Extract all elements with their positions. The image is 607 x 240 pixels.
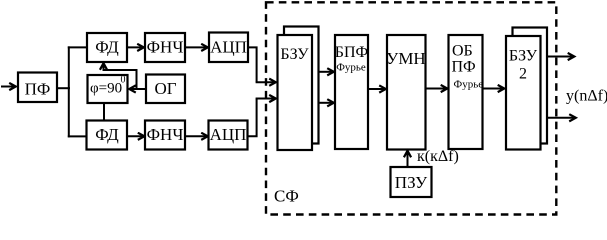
svg-text:СФ: СФ bbox=[274, 187, 299, 206]
block FD upper (ФД) bbox=[87, 33, 127, 62]
dashed box SF (СФ) bbox=[266, 2, 556, 214]
wire BPF to UMN bbox=[368, 88, 386, 90]
svg-text:Фурье: Фурье bbox=[336, 62, 366, 74]
svg-text:БЗУ: БЗУ bbox=[280, 46, 309, 63]
wire phase shifter to lower FD bbox=[103, 103, 105, 121]
wire bus to lower FD bbox=[68, 135, 86, 137]
svg-text:ПФ: ПФ bbox=[25, 80, 51, 99]
block OG (ОГ) bbox=[146, 75, 185, 104]
svg-text:Фурье: Фурье bbox=[454, 79, 484, 91]
block FNCh upper (ФНЧ) bbox=[145, 33, 185, 62]
svg-text:ОГ: ОГ bbox=[154, 79, 176, 98]
wire BZU to BPF (lower) bbox=[319, 102, 335, 104]
svg-text:ФНЧ: ФНЧ bbox=[147, 125, 184, 144]
svg-text:ПФ: ПФ bbox=[452, 59, 476, 76]
block PF (ПФ) bbox=[18, 73, 57, 103]
block BZU front box (БЗУ) bbox=[278, 35, 313, 150]
svg-text:ФД: ФД bbox=[95, 38, 119, 57]
wire FNCh to ADC upper bbox=[185, 46, 208, 48]
wire arrow up into upper FD bbox=[103, 63, 105, 71]
wire OBPF to BZU2 bbox=[483, 88, 505, 90]
block FD lower (ФД) bbox=[87, 121, 128, 150]
wire ADC lower to BZU bbox=[248, 99, 257, 137]
input arrow bbox=[1, 86, 16, 88]
block BZU2 front box (БЗУ 2) bbox=[506, 36, 541, 150]
svg-text:АЦП: АЦП bbox=[210, 38, 247, 57]
wire FD to FNCh upper bbox=[127, 46, 144, 48]
wire junction up from OG line bbox=[104, 70, 137, 89]
block PZU (ПЗУ) bbox=[391, 167, 432, 197]
svg-text:БПФ: БПФ bbox=[335, 44, 368, 61]
wire FD to FNCh lower bbox=[127, 135, 145, 137]
svg-text:ПЗУ: ПЗУ bbox=[395, 173, 428, 192]
svg-text:ФНЧ: ФНЧ bbox=[147, 38, 184, 57]
block OBPF (ОБ ПФ Фурье) bbox=[449, 35, 484, 149]
svg-text:УМН: УМН bbox=[386, 49, 425, 68]
wire BZU2 output upper bbox=[547, 56, 575, 58]
svg-text:АЦП: АЦП bbox=[210, 125, 247, 144]
wire ADC upper to BZU bbox=[248, 47, 257, 82]
wire bus to upper FD bbox=[68, 46, 87, 48]
wire UMN to OBPF bbox=[426, 88, 448, 90]
block BZU back box bbox=[284, 27, 319, 144]
bus vertical bbox=[68, 46, 70, 137]
svg-text:к(кΔf): к(кΔf) bbox=[417, 148, 459, 165]
wire BZU to BPF (upper) bbox=[319, 71, 335, 73]
block UMN (УМН) bbox=[386, 35, 425, 150]
svg-text:БЗУ: БЗУ bbox=[509, 48, 538, 65]
wire PF to bus bbox=[57, 87, 70, 89]
wire OG to phase shifter bbox=[129, 88, 146, 90]
block ADC lower (АЦП) bbox=[209, 121, 248, 150]
svg-text:ФД: ФД bbox=[95, 125, 119, 144]
svg-text:2: 2 bbox=[519, 66, 527, 83]
wire FNCh to ADC lower bbox=[185, 135, 208, 137]
svg-text:0: 0 bbox=[121, 75, 126, 86]
block BZU2 back box bbox=[513, 28, 548, 144]
wire PZU to UMN bbox=[407, 151, 409, 168]
svg-text:у(nΔf): у(nΔf) bbox=[566, 88, 607, 105]
svg-text:ОБ: ОБ bbox=[452, 43, 473, 60]
wire BZU2 output lower bbox=[547, 117, 576, 119]
block FNCh lower (ФНЧ) bbox=[145, 121, 185, 150]
block ADC upper (АЦП) bbox=[209, 33, 248, 63]
block BPF (БПФ Фурье) bbox=[335, 35, 368, 149]
block phase shifter (φ=90°) bbox=[88, 75, 128, 104]
svg-text:φ=90: φ=90 bbox=[90, 81, 122, 97]
